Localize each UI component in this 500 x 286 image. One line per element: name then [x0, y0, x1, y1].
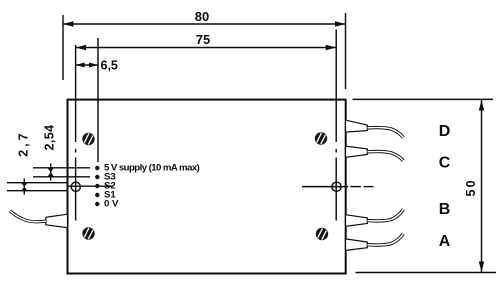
dimension 75 arrow left [76, 45, 87, 50]
pitch line B (S3 row stub) [33, 176, 90, 178]
mounting hole right circle [332, 182, 341, 191]
screw bottom-left [82, 227, 94, 239]
pitch line A (5V row stub) [33, 167, 90, 169]
dimension 80 line [63, 23, 346, 25]
dimension 2,7 tick [23, 179, 25, 195]
svg-text:6,5: 6,5 [101, 59, 118, 73]
pin A body [346, 239, 368, 251]
pin C body [346, 146, 368, 157]
dimension 6,5 line [76, 64, 98, 66]
top line of lead detail (right) [353, 98, 494, 100]
mounting hole right horizontal centerline [302, 186, 348, 188]
solder pin dot S3 [95, 175, 99, 179]
screw top-right [315, 132, 327, 144]
dimension 50 line [481, 100, 483, 272]
module outline [68, 100, 346, 274]
dimension 2,54 arrows [47, 168, 54, 177]
dimension 2,54 tick [50, 164, 52, 181]
mounting hole left circle [71, 182, 80, 191]
wire of pin C [368, 151, 404, 160]
svg-text:D: D [439, 123, 451, 140]
offset line C [7, 182, 68, 184]
wire of left connector [10, 211, 46, 222]
svg-text:5 V supply (10 mA max): 5 V supply (10 mA max) [104, 162, 200, 173]
solder pin dot S2 [95, 184, 99, 188]
dimension 50 arrow bottom [479, 262, 484, 273]
extension line right (80 dim) [345, 13, 347, 89]
dimension 80 arrow right [335, 21, 346, 26]
centerline left lower [75, 158, 77, 221]
svg-text:C: C [439, 154, 451, 171]
extension line pin row (6,5 dim) [97, 38, 99, 162]
svg-text:2,7: 2,7 [17, 130, 31, 156]
svg-text:2,54: 2,54 [43, 125, 57, 151]
offset line E [7, 190, 68, 192]
screw bottom-right [316, 228, 328, 240]
solder pin dot 5V [95, 166, 99, 170]
bottom line of lead detail (right) [356, 272, 497, 274]
svg-text:0 V: 0 V [104, 199, 119, 210]
centerline right dot [335, 149, 337, 153]
dimension 2,7 arrows [21, 183, 28, 191]
dimension 80 arrow left [63, 21, 74, 26]
wire of pin A [368, 234, 404, 245]
wire of pin B [368, 209, 404, 221]
centerline left dot [75, 149, 77, 153]
extension line mid-left (75 dim, mounting centerline left) [75, 45, 77, 142]
screw top-left [82, 133, 94, 145]
solder pin dot 0V [95, 202, 99, 206]
centerline right lower [335, 158, 337, 221]
pin D body [346, 120, 368, 132]
dimension 50 arrow top [479, 100, 484, 111]
extension line mid-right (75 dim, mounting centerline right) [335, 30, 337, 143]
pin B body [346, 215, 368, 227]
extension line left (80 dim) [62, 15, 64, 80]
svg-text:B: B [439, 201, 451, 218]
mounting hole right centerline dashes [351, 186, 362, 188]
dimension 75 line [76, 47, 337, 49]
mounting hole left crosshair line [68, 185, 112, 187]
svg-text:75: 75 [196, 32, 210, 47]
wire of pin D [368, 128, 404, 138]
left connector body [46, 214, 68, 228]
svg-text:A: A [439, 233, 451, 250]
dimension 75 arrow right [326, 45, 337, 50]
solder pin dot S1 [95, 193, 99, 197]
svg-text:50: 50 [464, 178, 478, 196]
svg-text:80: 80 [195, 9, 209, 24]
dimension 6,5 arrow right [89, 63, 98, 68]
dimension 6,5 arrow left [76, 63, 85, 68]
